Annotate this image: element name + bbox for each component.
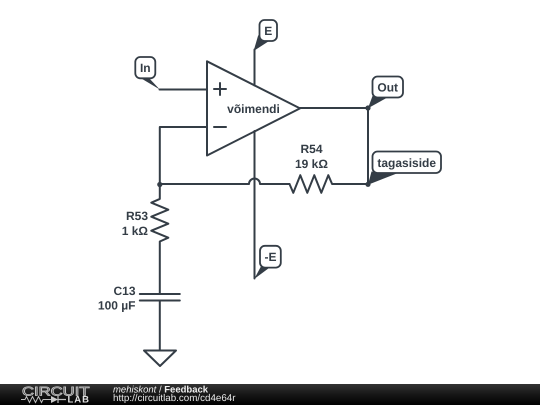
junction dot left node	[157, 182, 162, 187]
node flag Out	[368, 77, 403, 109]
svg-text:-E: -E	[265, 250, 277, 264]
node flag -E	[254, 246, 281, 279]
wire Out node down to tagasiside node	[367, 108, 369, 184]
svg-text:100 µF: 100 µF	[98, 299, 136, 313]
wire op-amp bottom to -E (with crossing)	[254, 131, 256, 279]
wire In to op-amp non-inverting input	[160, 89, 208, 91]
svg-text:R54: R54	[300, 142, 322, 156]
op-amp U1 triangle	[207, 61, 300, 155]
svg-text:http://circuitlab.com/cd4e64r: http://circuitlab.com/cd4e64r	[113, 393, 236, 404]
CircuitLab logo wordmark	[21, 385, 90, 405]
svg-text:E: E	[264, 24, 272, 38]
svg-text:C13: C13	[113, 284, 135, 298]
node flag tagasiside	[368, 152, 441, 185]
wire feedback left segment with hop over -E wire	[160, 179, 290, 184]
wire E supply to op-amp top	[254, 50, 256, 86]
capacitor C13 top plate	[140, 293, 180, 295]
wire op-amp output to Out node	[300, 107, 368, 109]
svg-text:In: In	[140, 61, 151, 75]
wire capacitor to ground	[159, 301, 161, 351]
resistor R54 zigzag	[290, 175, 369, 193]
ground symbol	[144, 351, 176, 367]
svg-text:tagasiside: tagasiside	[377, 156, 436, 170]
op-amp minus sign	[214, 126, 226, 128]
svg-text:võimendi: võimendi	[227, 102, 280, 116]
junction dot tagasiside node	[365, 182, 370, 187]
node flag E	[254, 20, 277, 51]
svg-text:1 kΩ: 1 kΩ	[122, 224, 149, 238]
svg-text:Out: Out	[377, 81, 398, 95]
svg-text:R53: R53	[126, 209, 148, 223]
op-amp plus sign	[214, 83, 226, 95]
resistor R53 zigzag	[151, 184, 168, 294]
svg-text:LAB: LAB	[68, 395, 91, 405]
wire op-amp inverting input to left vertical	[160, 127, 207, 184]
capacitor C13 bottom plate	[140, 300, 180, 302]
junction dot Out node	[365, 105, 370, 110]
node flag In	[135, 57, 160, 90]
svg-text:19 kΩ: 19 kΩ	[295, 157, 328, 171]
